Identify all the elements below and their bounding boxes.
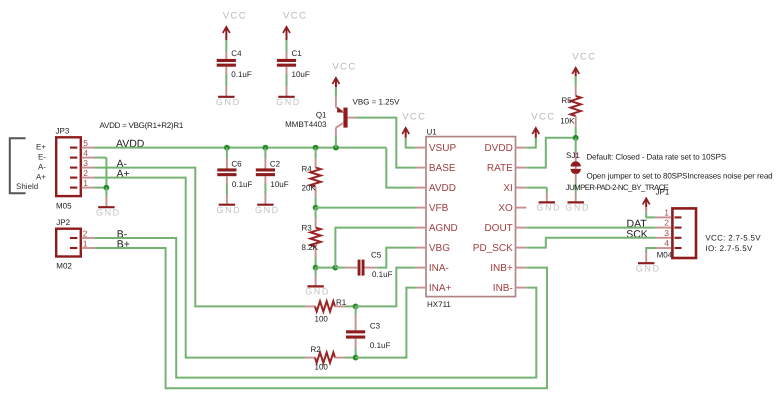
svg-text:INA+: INA+ [429, 283, 452, 294]
svg-text:Shield: Shield [16, 182, 38, 191]
junction AVDD at Q1 collector [333, 145, 339, 151]
svg-text:5: 5 [83, 138, 88, 148]
svg-text:INB-: INB- [493, 283, 513, 294]
ground below R3 [305, 286, 330, 296]
wire C1 to ground [286, 67, 288, 97]
wire VFB node to VFB pin [316, 207, 416, 209]
svg-text:M02: M02 [56, 261, 72, 270]
svg-text:VCC: VCC [332, 61, 356, 72]
wire DVDD pin to VCC [526, 128, 536, 148]
junction at JP3 pin 1 [104, 185, 110, 191]
svg-text:4: 4 [664, 238, 669, 248]
capacitor C2 [256, 159, 289, 189]
wire C5 to VBG pin [365, 248, 416, 268]
svg-text:VCC: VCC [531, 112, 555, 123]
svg-text:IO: 2.7-5.5V: IO: 2.7-5.5V [705, 244, 753, 253]
connector JP2 (M02) [56, 218, 81, 271]
junction AVDD at C6 [224, 145, 230, 151]
svg-text:R4: R4 [302, 164, 313, 173]
pin VSUP of U1 [416, 143, 457, 154]
wire C4 to ground [225, 67, 227, 97]
svg-text:INA-: INA- [429, 263, 449, 274]
svg-text:0.1uF: 0.1uF [231, 70, 252, 79]
svg-text:C4: C4 [231, 49, 242, 58]
svg-text:20K: 20K [302, 183, 317, 192]
wire VCC to Q1 emitter [335, 78, 337, 107]
svg-text:JUMPER-PAD-2-NC_BY_TRACE: JUMPER-PAD-2-NC_BY_TRACE [566, 183, 669, 192]
pin INA+ of U1 [416, 283, 452, 294]
wire VCC to JP1 pin 1 [646, 199, 656, 218]
pin INA- of U1 [416, 263, 449, 274]
ground below JP3 [96, 207, 121, 217]
resistor R4 20K [302, 148, 321, 208]
svg-text:100: 100 [315, 314, 329, 323]
wire junction down to SJ1 [575, 138, 577, 162]
solder jumper SJ1 [566, 151, 581, 174]
svg-text:GND: GND [536, 203, 561, 213]
svg-text:VBG: VBG [429, 243, 450, 254]
junction R3 bottom / analog ground node [313, 265, 319, 271]
svg-text:10uF: 10uF [270, 180, 288, 189]
svg-text:1: 1 [83, 238, 88, 248]
pin 3 of JP3 [82, 158, 95, 168]
svg-text:C2: C2 [270, 159, 281, 168]
power flag VCC above R5 [572, 51, 596, 80]
svg-text:A-: A- [38, 162, 46, 171]
svg-text:GND: GND [96, 207, 121, 217]
wire VCC to C1 [286, 27, 288, 59]
wire A- from JP3 pin 3 to R1 [95, 168, 306, 307]
svg-text:Q1: Q1 [316, 111, 327, 120]
svg-text:R1: R1 [336, 298, 347, 307]
svg-text:DVDD: DVDD [484, 143, 512, 154]
svg-text:DOUT: DOUT [484, 223, 512, 234]
svg-text:E+: E+ [36, 143, 46, 152]
wire Q1 collector to AVDD rail [335, 128, 337, 148]
power flag VCC above C4 [223, 10, 247, 39]
svg-text:8.2K: 8.2K [302, 243, 319, 252]
pin 5 of JP3 [82, 138, 95, 148]
pin 2 of JP1 [656, 218, 671, 228]
svg-text:Default: Closed - Data rate se: Default: Closed - Data rate set to 10SPS [587, 152, 727, 161]
svg-text:AVDD: AVDD [429, 183, 456, 194]
pin PD_SCK of U1 [473, 243, 527, 254]
pin AVDD of U1 [416, 183, 456, 194]
svg-text:VBG = 1.25V: VBG = 1.25V [353, 97, 401, 106]
svg-text:XI: XI [503, 183, 512, 194]
svg-text:0.1uF: 0.1uF [232, 180, 253, 189]
svg-text:E-: E- [38, 152, 46, 161]
svg-text:JP1: JP1 [656, 188, 670, 197]
wire INA+ node to INA+ pin [356, 288, 416, 358]
svg-text:AVDD = VBG(R1+R2)R1: AVDD = VBG(R1+R2)R1 [100, 121, 184, 130]
ground below C4 [216, 97, 241, 107]
svg-text:C1: C1 [292, 49, 303, 58]
ground below JP1 [636, 263, 661, 273]
IC U1 HX711 body [426, 128, 516, 309]
svg-text:XO: XO [498, 203, 513, 214]
svg-text:2: 2 [83, 228, 88, 238]
wire ground node to C5 junction [316, 267, 336, 269]
svg-text:GND: GND [636, 263, 661, 273]
svg-text:A+: A+ [36, 172, 46, 181]
pin INB+ of U1 [490, 263, 526, 274]
svg-text:4: 4 [83, 148, 88, 158]
svg-text:U1: U1 [427, 128, 438, 137]
svg-text:GND: GND [565, 203, 590, 213]
svg-text:AGND: AGND [429, 223, 458, 234]
wire A+ from JP3 pin 2 to R2 [95, 178, 306, 358]
junction AGND / C5 node [333, 265, 339, 271]
wire INA- node to INA- pin [356, 268, 416, 307]
svg-text:JP2: JP2 [56, 218, 70, 227]
wire B+ from JP2 pin 1 to INB+ [95, 248, 548, 388]
resistor R2 100 [305, 345, 356, 372]
pin VBG of U1 [416, 243, 450, 254]
pin 1 of JP2 [82, 238, 95, 248]
svg-text:JP3: JP3 [56, 127, 70, 136]
svg-text:GND: GND [216, 97, 241, 107]
ground below SJ1 [565, 202, 590, 212]
svg-text:10K: 10K [560, 116, 575, 125]
svg-text:C3: C3 [370, 321, 381, 330]
junction AVDD at R4 [313, 145, 319, 151]
pin 2 of JP3 [82, 168, 95, 178]
capacitor C4 [217, 49, 252, 79]
pin 4 of JP3 [82, 148, 95, 158]
capacitor C1 [277, 49, 310, 79]
wire RATE pin to R5 junction [526, 138, 575, 168]
capacitor C6 [217, 159, 252, 189]
power flag VCC at VSUP [402, 112, 426, 141]
svg-text:PD_SCK: PD_SCK [473, 243, 513, 254]
ground below C6 [216, 205, 241, 215]
pin XI of U1 [503, 183, 526, 194]
svg-text:VSUP: VSUP [429, 143, 457, 154]
transistor Q1 MMBT4403 [285, 107, 355, 129]
svg-text:VCC: VCC [283, 10, 307, 21]
power flag VCC above C1 [283, 10, 307, 39]
svg-text:VCC: VCC [572, 51, 596, 62]
pin DOUT of U1 [484, 223, 526, 234]
svg-text:2: 2 [664, 218, 669, 228]
pin AGND of U1 [416, 223, 458, 234]
ground below C2 [255, 205, 280, 215]
svg-text:GND: GND [305, 287, 330, 297]
svg-text:3: 3 [83, 158, 88, 168]
wire SJ1 to ground [575, 173, 577, 202]
pin DVDD of U1 [484, 143, 526, 154]
svg-text:C6: C6 [231, 159, 242, 168]
junction AVDD at C2 [263, 145, 269, 151]
pin 1 of JP1 [656, 207, 671, 217]
pin 1 of JP3 [82, 178, 95, 188]
pin 4 of JP1 [656, 238, 671, 248]
wire AVDD rail [95, 147, 387, 149]
svg-text:R3: R3 [302, 223, 313, 232]
svg-text:1: 1 [83, 178, 88, 188]
svg-text:MMBT4403: MMBT4403 [285, 120, 327, 129]
svg-text:10uF: 10uF [292, 70, 310, 79]
wire JP1 pin 4 to ground [646, 248, 656, 263]
ground at XI [536, 202, 561, 212]
svg-text:0.1uF: 0.1uF [372, 270, 393, 279]
pin VFB of U1 [416, 203, 449, 214]
svg-text:VCC: VCC [402, 112, 426, 123]
connector JP3 (M05) [56, 127, 81, 211]
pin RATE of U1 [487, 163, 526, 174]
resistor R5 10K [560, 68, 581, 138]
power flag VCC at JP1 pin 1 [643, 198, 650, 211]
pin XO of U1 [498, 203, 526, 214]
svg-text:R2: R2 [311, 345, 322, 354]
connector JP1 (M04) [656, 188, 697, 260]
wire JP3 pin 1 to ground junction [95, 187, 107, 189]
svg-text:SJ1: SJ1 [566, 151, 580, 160]
svg-text:3: 3 [664, 228, 669, 238]
svg-text:Open jumper to set to 80SPSInc: Open jumper to set to 80SPSIncreases noi… [587, 171, 773, 180]
wire C2 to ground [264, 176, 266, 204]
wire DOUT to JP1 pin 2 [526, 227, 656, 229]
svg-text:2: 2 [83, 168, 88, 178]
svg-text:1: 1 [664, 207, 669, 217]
capacitor C3 0.1uF [346, 306, 390, 357]
wire Q1 base to BASE pin [356, 118, 416, 168]
wire AVDD to C6 [226, 148, 228, 169]
svg-text:VFB: VFB [429, 203, 449, 214]
svg-text:BASE: BASE [429, 163, 456, 174]
wire AGND node up to AGND pin [335, 228, 415, 268]
svg-text:GND: GND [216, 205, 241, 215]
svg-text:M05: M05 [56, 202, 72, 211]
wire B- from JP2 pin 2 to INB- [95, 238, 537, 378]
ground below C1 [276, 97, 301, 107]
svg-text:100: 100 [315, 363, 329, 372]
pin BASE of U1 [416, 163, 456, 174]
svg-text:GND: GND [276, 97, 301, 107]
wire junction down to ground [105, 188, 107, 207]
svg-text:0.1uF: 0.1uF [370, 341, 391, 350]
wire VCC to VSUP pin [406, 128, 416, 148]
svg-text:RATE: RATE [487, 163, 513, 174]
resistor R3 8.2K [302, 208, 321, 268]
wire C6 to ground [226, 176, 228, 204]
wire AVDD to C2 [264, 148, 266, 169]
svg-text:GND: GND [255, 205, 280, 215]
junction RATE / R5 / SJ1 [573, 135, 579, 141]
junction INA+ node [353, 355, 359, 361]
wire VCC to C4 [225, 27, 227, 59]
svg-text:HX711: HX711 [427, 300, 451, 309]
pin 3 of JP1 [656, 228, 671, 238]
svg-text:INB+: INB+ [490, 263, 513, 274]
svg-text:VCC: VCC [223, 10, 247, 21]
junction INA- node [353, 304, 359, 310]
wire E- (JP3 pin 4) down to ground junction [95, 158, 107, 188]
svg-text:VCC: 2.7-5.5V: VCC: 2.7-5.5V [705, 234, 761, 243]
cable shield bracket [10, 138, 26, 193]
pin INB- of U1 [493, 283, 527, 294]
power flag VCC at DVDD [531, 112, 555, 141]
svg-text:C5: C5 [371, 250, 382, 259]
svg-text:M04: M04 [657, 250, 673, 259]
wire PD_SCK to JP1 pin 3 [526, 238, 656, 248]
resistor R1 100 [305, 298, 356, 323]
wire XI pin to ground [526, 188, 547, 202]
wire AGND node to C5 [335, 267, 357, 269]
power flag VCC above Q1 [332, 61, 356, 90]
capacitor C5 0.1uF [358, 250, 393, 278]
junction VFB node [313, 205, 319, 211]
wire AVDD rail to AVDD pin [386, 148, 416, 188]
wire R3 bottom to ground [315, 268, 317, 286]
svg-text:R5: R5 [561, 96, 572, 105]
pin 2 of JP2 [82, 228, 95, 238]
